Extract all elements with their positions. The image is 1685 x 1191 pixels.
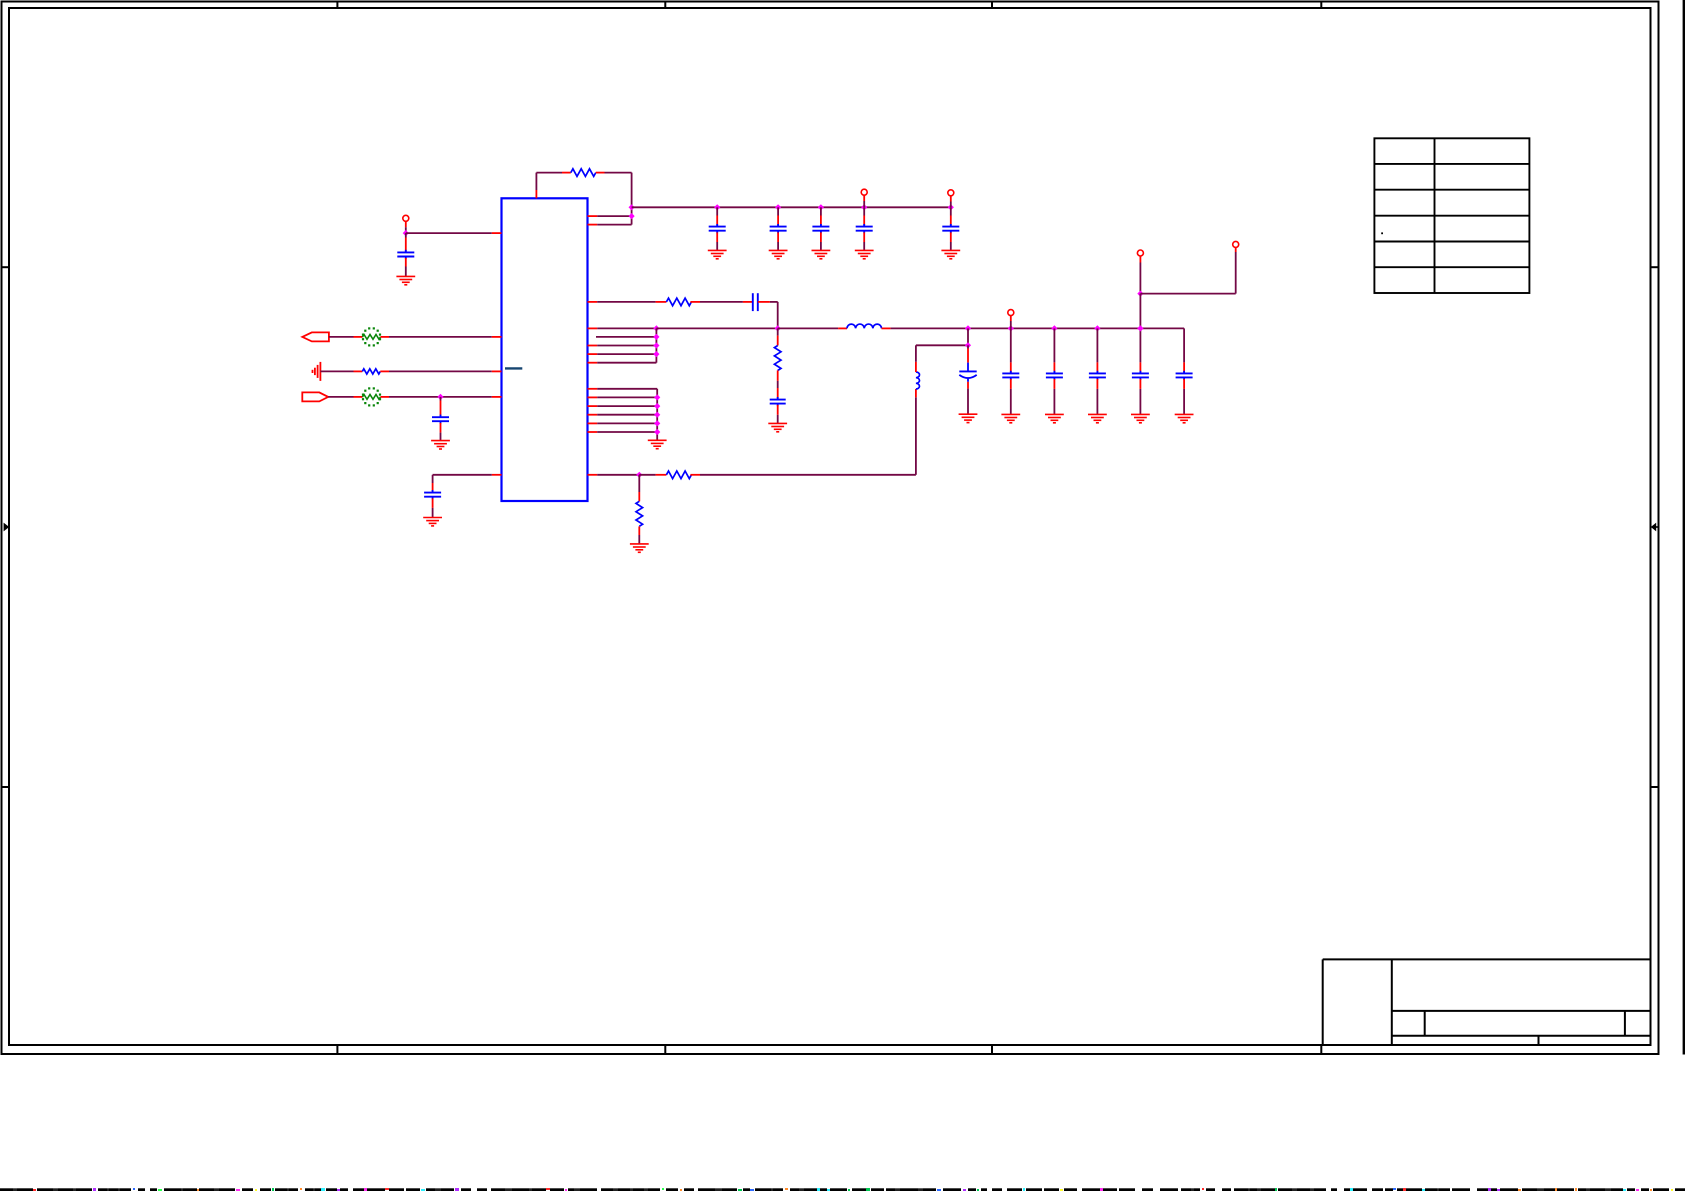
ferrite bead FB2: [362, 387, 381, 406]
junction top rail C3: [818, 204, 824, 210]
capacitor C6: [405, 233, 407, 237]
junction top rail C5: [948, 204, 954, 210]
junction RC node: [775, 325, 781, 331]
wire R5 to R6: [639, 474, 655, 476]
wire bus1 pin 2: [596, 336, 656, 338]
wire IC bottom-left: [492, 474, 502, 476]
revision table: [1374, 138, 1529, 293]
junction top rail C1: [714, 204, 720, 210]
wire out rail corner: [1183, 328, 1185, 362]
junction bus2: [654, 403, 660, 409]
junction out rail C12: [1008, 325, 1014, 331]
wire bus1 pin 5: [588, 362, 598, 364]
junction out rail C14: [1094, 325, 1100, 331]
ground C10: [768, 423, 787, 431]
capacitor C11 polarized: [967, 345, 969, 348]
wire RC c: [770, 301, 778, 303]
port OUT1: [302, 332, 329, 341]
riser vertical upper: [915, 345, 917, 362]
wire bus2 pin 2: [588, 396, 598, 398]
border bottom tick 4: [1320, 1045, 1322, 1055]
wire OUT1 a: [329, 336, 354, 338]
border right center arrow: [1651, 523, 1656, 532]
chassis ground: [313, 362, 321, 381]
wire node vertical: [967, 328, 969, 345]
border left tick 2: [2, 786, 10, 788]
noise strip: [0, 1188, 1685, 1191]
ground R5: [630, 544, 649, 552]
capacitor C10: [770, 397, 786, 406]
wire left cap to IC: [406, 232, 492, 234]
inductor L2: [915, 389, 917, 397]
IC U1 pin-1 dash: [505, 367, 522, 369]
resistor R6: [656, 474, 667, 476]
capacitor C14: [1096, 328, 1098, 362]
wire bus2 pin 6: [588, 431, 598, 433]
inductor L1: [847, 324, 882, 328]
wire IN1 a: [328, 396, 353, 398]
capacitor C1: [716, 207, 718, 215]
wire IN1 b: [381, 396, 390, 398]
ground C1: [708, 250, 727, 258]
junction out rail C13: [1051, 325, 1057, 331]
junction top rail C2: [775, 204, 781, 210]
power port P5: [1137, 250, 1143, 256]
ground C13: [1045, 414, 1064, 422]
port IN1: [302, 392, 328, 401]
junction node rail: [965, 325, 971, 331]
ground C16: [1175, 414, 1194, 422]
wire R4 to C10: [777, 381, 779, 388]
junction P5: [1137, 291, 1143, 297]
border bottom tick 1: [336, 1045, 338, 1055]
junction top rail C4: [861, 204, 867, 210]
ground C11: [959, 414, 978, 422]
capacitor C15: [1139, 328, 1141, 362]
wire feedback right vertical: [631, 173, 633, 225]
border top tick 2: [664, 2, 666, 9]
junction bus1 top: [653, 325, 659, 331]
resistor R3: [656, 301, 667, 303]
ground C7: [431, 441, 450, 449]
wire rail after inductor: [882, 327, 891, 329]
junction bus2: [654, 412, 660, 418]
resistor R5 shunt: [638, 475, 640, 492]
ground C15: [1131, 414, 1150, 422]
bus2 vertical: [656, 389, 658, 440]
wire R6 to riser: [700, 474, 916, 476]
wire OUT1 b: [381, 336, 390, 338]
wire top supply rail: [632, 206, 951, 208]
ground bus2: [648, 440, 667, 448]
wire pin2 to feedback: [588, 215, 598, 217]
border bottom tick 3: [991, 1045, 993, 1055]
wire IC top pin to feedback: [535, 173, 537, 190]
ground C14: [1088, 414, 1107, 422]
border top tick 1: [336, 2, 338, 9]
wire P5-P6 horizontal: [1140, 293, 1235, 295]
wire feedback top left: [536, 172, 562, 174]
power port P1: [861, 189, 867, 195]
wire row2 a: [320, 370, 353, 372]
ground C12: [1001, 414, 1020, 422]
junction out rail C15: [1137, 325, 1143, 331]
ground C2: [769, 250, 788, 258]
ground C5: [941, 250, 960, 258]
adjacent sheet edge line: [1683, 0, 1685, 1055]
junction bus1: [653, 334, 659, 340]
junction R5: [636, 472, 642, 478]
junction bus1: [653, 351, 659, 357]
capacitor C3: [820, 207, 822, 215]
wire pin3 to feedback: [588, 224, 598, 226]
wire bus2 pin 4: [588, 414, 598, 416]
capacitor C12: [1010, 328, 1012, 362]
capacitor C5: [950, 207, 952, 215]
border top tick 4: [1320, 2, 1322, 9]
capacitor C8: [424, 490, 441, 499]
capacitor C16: [1183, 362, 1185, 372]
border right tick 1: [1651, 266, 1659, 268]
wire riser to node: [916, 344, 968, 346]
wire bus1 pin 3: [588, 345, 598, 347]
ground C4: [855, 250, 874, 258]
title block: [1323, 959, 1651, 1044]
power port P6: [1233, 241, 1239, 247]
resistor R_fb: [562, 172, 571, 174]
power port P2: [948, 190, 954, 196]
wire bottom pin right: [588, 474, 598, 476]
wire row2 b: [380, 370, 389, 372]
wire rail to inductor: [778, 327, 838, 329]
junction bus2: [654, 394, 660, 400]
capacitor C7: [440, 397, 442, 401]
border bottom tick 2: [664, 1045, 666, 1055]
resistor R2: [362, 369, 380, 374]
IC U1 body: [502, 198, 588, 501]
junction node mid: [965, 342, 971, 348]
table dot: [1381, 232, 1383, 234]
resistor R4: [777, 328, 779, 335]
junction bus2: [654, 429, 660, 435]
wire bus2 pin 3: [588, 405, 598, 407]
junction left cap: [403, 230, 409, 236]
ground C8: [423, 518, 442, 526]
capacitor C13: [1053, 328, 1055, 362]
wire bus2 pin 5: [588, 422, 598, 424]
wire RC a: [588, 301, 598, 303]
junction pin2: [629, 213, 635, 219]
junction bus1: [653, 342, 659, 348]
bus1 vertical: [655, 328, 657, 362]
junction feedback-rail: [629, 204, 635, 210]
border top tick 3: [991, 2, 993, 9]
wire P5 to rail: [1139, 294, 1141, 329]
border right tick 2: [1651, 786, 1659, 788]
wire feedback top right: [605, 172, 632, 174]
ground C6: [396, 276, 415, 284]
wire bus2 pin 1: [588, 388, 598, 390]
wire RC b: [700, 301, 743, 303]
power port P3: [403, 215, 409, 221]
border left center arrow: [4, 523, 10, 532]
capacitor C9: [743, 301, 753, 303]
power port P4: [1008, 310, 1014, 316]
wire rail bus to R3 node: [656, 327, 777, 329]
wire bus1 pin 4: [588, 353, 598, 355]
junction P5 rail: [1137, 325, 1143, 331]
capacitor C2: [777, 207, 779, 215]
ferrite bead FB1: [362, 327, 381, 346]
ground C3: [812, 250, 831, 258]
junction bus2: [654, 420, 660, 426]
capacitor C4: [863, 207, 865, 215]
junction IN1 cap: [437, 394, 443, 400]
wire rail IC to bus: [588, 327, 598, 329]
riser vertical lower: [915, 397, 917, 475]
border left tick 1: [2, 266, 10, 268]
